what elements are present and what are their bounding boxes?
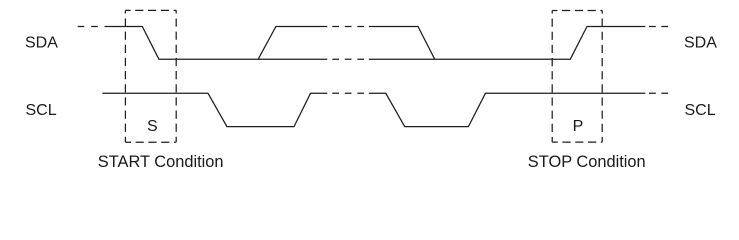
SDA pulse high middle dashes [332,26,364,28]
START condition dashed box: right edge [175,10,177,142]
SDA high solid, fall, low baseline left solid [105,27,328,60]
SDA pulse high plateau right part and fall [369,27,435,60]
STOP condition dashed box: top edge [552,10,602,12]
STOP condition dashed box: bottom edge [552,141,602,143]
svg-text:SDA: SDA [684,34,717,51]
SDA pulse rise and high plateau left part [258,27,327,60]
SCL right dashed lead-out [649,92,669,94]
svg-text:SCL: SCL [685,102,716,119]
svg-text:S: S [147,118,158,135]
SDA left dashed lead-in [78,26,99,28]
SCL high, second fall, low, second rise, high through STOP [369,93,646,126]
START condition dashed box: top edge [125,9,176,11]
svg-text:P: P [573,118,584,135]
svg-text:SDA: SDA [25,35,58,52]
SDA baseline right solid, rise in STOP box, high solid [369,27,646,60]
STOP condition dashed box: left edge [551,11,553,143]
SDA right dashed lead-out [649,26,669,28]
SDA baseline middle dashes [332,58,364,60]
START condition dashed box: left edge [124,10,126,142]
SCL left solid high, first fall, low, first rise [102,93,327,126]
svg-text:SCL: SCL [26,102,57,119]
svg-text:STOP Condition: STOP Condition [528,153,646,171]
SCL high middle dashes [332,92,364,94]
STOP condition dashed box: right edge [601,11,603,143]
START condition dashed box: bottom edge [125,141,176,143]
svg-text:START Condition: START Condition [98,153,224,171]
